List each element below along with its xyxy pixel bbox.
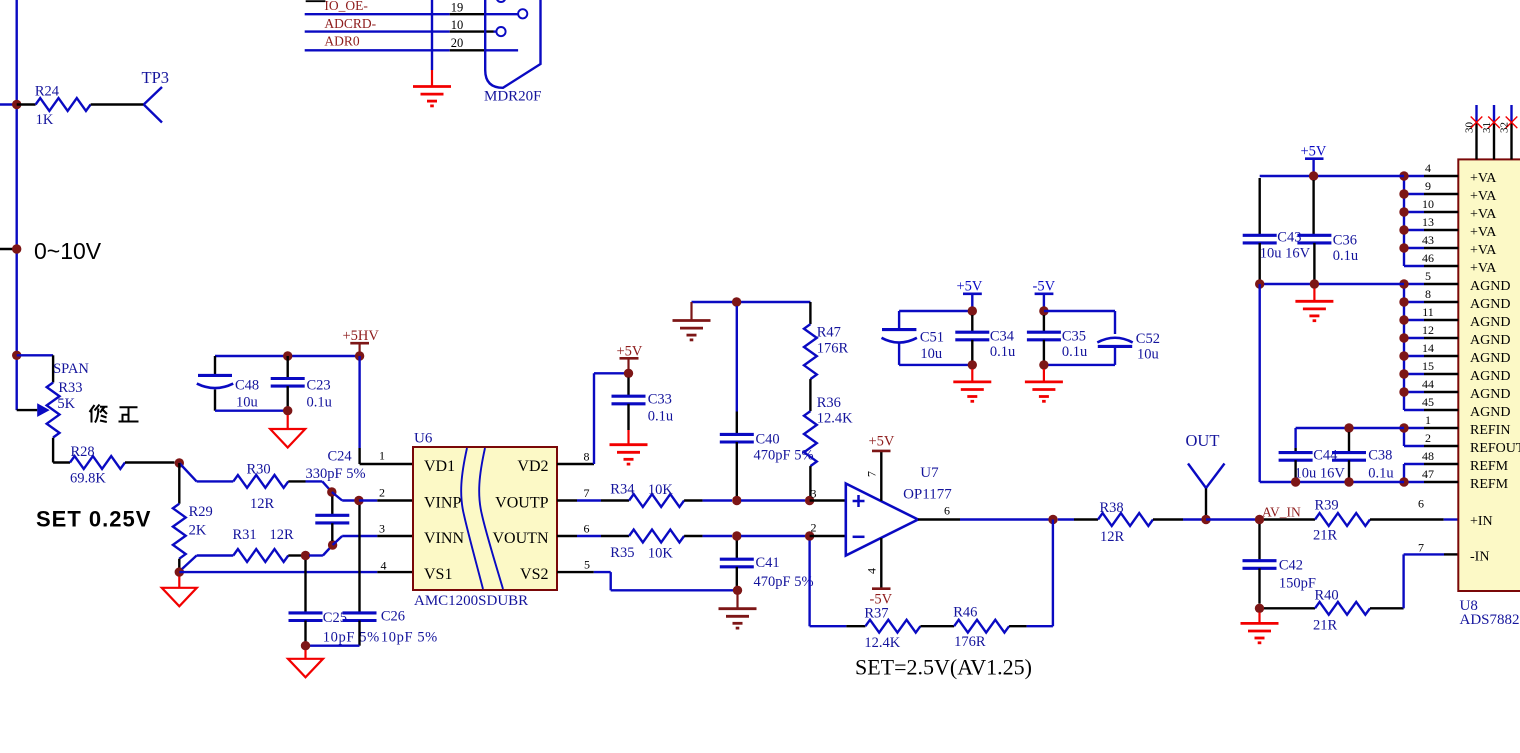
svg-text:30: 30 xyxy=(1464,122,1476,134)
ground connector (red earth) xyxy=(431,70,433,87)
svg-text:VD1: VD1 xyxy=(424,458,455,475)
svg-text:C36: C36 xyxy=(1333,233,1357,249)
svg-text:1: 1 xyxy=(1425,413,1431,427)
wire pot top lead xyxy=(17,355,53,382)
capacitor C36 0.1u xyxy=(1297,180,1358,280)
svg-text:0.1u: 0.1u xyxy=(1333,248,1358,264)
svg-text:+VA: +VA xyxy=(1470,243,1497,258)
svg-text:AGND: AGND xyxy=(1470,405,1510,420)
svg-text:-5V: -5V xyxy=(1033,279,1056,295)
svg-text:R34: R34 xyxy=(610,481,635,497)
ground C36 (red earth) xyxy=(1313,289,1315,302)
U8 top pin NC 31 xyxy=(1481,105,1500,159)
svg-text:47: 47 xyxy=(1422,467,1434,481)
svg-text:R47: R47 xyxy=(817,325,841,341)
node C24 top junction xyxy=(327,487,336,496)
resistor R31 12R xyxy=(233,527,302,562)
U8 pin 2 REFOUT xyxy=(1404,431,1520,456)
capacitor C42 150pF xyxy=(1243,524,1316,604)
node AGND junction xyxy=(1399,297,1408,306)
wire +5HV rail xyxy=(215,355,360,357)
svg-text:C38: C38 xyxy=(1368,448,1392,464)
resistor R47 176R xyxy=(804,302,848,379)
svg-text:31: 31 xyxy=(1481,122,1493,133)
wire -5V rail xyxy=(1044,310,1115,312)
node AV_IN junction xyxy=(1255,515,1264,524)
resistor R38 12R xyxy=(1058,500,1202,545)
node +VA junction xyxy=(1399,171,1408,180)
svg-text:0.1u: 0.1u xyxy=(1062,344,1087,360)
svg-text:4: 4 xyxy=(1425,161,1431,175)
svg-text:12R: 12R xyxy=(1100,529,1125,545)
node AGND-left junction xyxy=(175,567,184,576)
svg-text:2: 2 xyxy=(1425,431,1431,445)
test point TP3 xyxy=(142,68,170,123)
wire top node rail xyxy=(692,301,811,303)
connector pin circle cropped xyxy=(496,0,505,2)
svg-text:C41: C41 xyxy=(756,555,780,571)
svg-text:1K: 1K xyxy=(36,112,54,128)
wire VS2 to ground node xyxy=(557,572,733,590)
wire feedback left xyxy=(810,541,866,627)
connector pin circle row19 xyxy=(518,9,527,18)
svg-text:AGND: AGND xyxy=(1470,279,1510,294)
node C40 top junction xyxy=(732,297,741,306)
svg-text:10: 10 xyxy=(1422,197,1434,211)
U8 pin 15 AGND xyxy=(1404,359,1510,384)
U8 pin 44 AGND xyxy=(1404,377,1510,402)
wire left bus vertical xyxy=(1258,284,1260,482)
resistor R37 12.4K xyxy=(864,605,954,651)
U8 pin 43 +VA xyxy=(1404,233,1497,258)
node +VA junction xyxy=(1399,243,1408,252)
svg-text:REFOUT: REFOUT xyxy=(1470,441,1520,456)
svg-text:10u 16V: 10u 16V xyxy=(1260,246,1311,262)
svg-text:R31: R31 xyxy=(233,527,257,543)
node C38 bottom junction xyxy=(1344,477,1353,486)
label xiuzheng (Chinese) xyxy=(90,405,139,423)
svg-text:10u 16V: 10u 16V xyxy=(1295,466,1346,482)
svg-text:1: 1 xyxy=(379,449,385,463)
svg-text:5K: 5K xyxy=(57,396,75,412)
svg-text:OP1177: OP1177 xyxy=(903,487,952,503)
U8 pin 8 AGND xyxy=(1404,287,1510,312)
svg-text:0.1u: 0.1u xyxy=(990,344,1015,360)
wire C26 bottom to C25 xyxy=(306,645,360,647)
svg-text:12: 12 xyxy=(1422,323,1434,337)
node -5V junction xyxy=(1039,306,1048,315)
svg-text:C42: C42 xyxy=(1279,558,1303,574)
svg-text:330pF 5%: 330pF 5% xyxy=(306,466,366,482)
svg-text:R37: R37 xyxy=(864,605,888,621)
svg-text:+5V: +5V xyxy=(957,279,983,295)
wire VOUTP lead xyxy=(557,499,629,501)
node AGND junction xyxy=(1399,369,1408,378)
ground C25 triangle xyxy=(304,650,306,659)
wire to VINP pin xyxy=(332,492,359,501)
svg-text:C51: C51 xyxy=(920,330,944,346)
wire minus-input net xyxy=(741,535,805,537)
svg-text:TP3: TP3 xyxy=(142,68,170,87)
svg-text:21R: 21R xyxy=(1313,617,1338,633)
svg-text:48: 48 xyxy=(1422,449,1434,463)
resistor R28 69.8K xyxy=(53,444,174,487)
svg-text:C26: C26 xyxy=(381,609,405,625)
wire REFIN chain xyxy=(1403,428,1405,446)
svg-text:AGND: AGND xyxy=(1470,297,1510,312)
svg-text:-IN: -IN xyxy=(1470,550,1489,565)
svg-text:19: 19 xyxy=(451,0,464,14)
svg-text:10pF 5%: 10pF 5% xyxy=(381,630,438,646)
svg-text:470pF 5%: 470pF 5% xyxy=(754,448,814,464)
svg-text:5: 5 xyxy=(584,558,590,572)
wire to VINN pin xyxy=(333,536,413,545)
wire C48 bottom rail xyxy=(215,410,288,412)
wire +5V rail xyxy=(899,310,972,312)
node +VA junction xyxy=(1399,207,1408,216)
svg-text:8: 8 xyxy=(584,450,590,464)
svg-text:AGND: AGND xyxy=(1470,315,1510,330)
wire R40 to -IN xyxy=(1404,554,1459,608)
node C38 top junction xyxy=(1344,423,1353,432)
capacitor C43 10u 16V xyxy=(1243,178,1311,280)
svg-text:R40: R40 xyxy=(1315,587,1339,603)
svg-text:REFIN: REFIN xyxy=(1470,423,1510,438)
svg-text:10K: 10K xyxy=(648,482,674,498)
U8 pin 1 REFIN xyxy=(1404,413,1510,438)
svg-text:SPAN: SPAN xyxy=(53,361,89,377)
test point OUT xyxy=(1186,431,1225,515)
svg-text:2: 2 xyxy=(811,521,817,535)
U8 pin 11 AGND xyxy=(1404,305,1510,330)
node feedback junction xyxy=(805,531,814,540)
power +5HV xyxy=(343,328,380,356)
svg-text:7: 7 xyxy=(584,486,590,500)
svg-text:10pF 5%: 10pF 5% xyxy=(323,630,380,646)
svg-text:0.1u: 0.1u xyxy=(1368,466,1393,482)
svg-text:6: 6 xyxy=(1418,496,1424,510)
node C24 bottom junction xyxy=(328,540,337,549)
wire cropped top row xyxy=(306,0,326,2)
svg-text:AMC1200SDUBR: AMC1200SDUBR xyxy=(414,593,528,609)
U8 pin 12 AGND xyxy=(1404,323,1510,348)
svg-text:150pF: 150pF xyxy=(1279,576,1316,592)
svg-text:SET 0.25V: SET 0.25V xyxy=(36,507,151,532)
capacitor C41 470pF 5% xyxy=(720,541,814,590)
svg-text:SET=2.5V(AV1.25): SET=2.5V(AV1.25) xyxy=(855,655,1032,680)
ground C23 triangle xyxy=(287,415,289,429)
wire VD2 to +5V node xyxy=(557,373,629,464)
wire +5HV to VD1 xyxy=(360,356,413,464)
svg-text:+5V: +5V xyxy=(869,434,895,450)
svg-text:470pF 5%: 470pF 5% xyxy=(754,574,814,590)
svg-text:15: 15 xyxy=(1422,359,1434,373)
svg-text:VS1: VS1 xyxy=(424,566,452,583)
U8 pin 45 AGND xyxy=(1404,395,1510,420)
wire ADCRD- row xyxy=(305,30,497,32)
capacitor C23 0.1u xyxy=(271,356,332,411)
capacitor C35 0.1u xyxy=(1027,315,1087,361)
svg-text:+5HV: +5HV xyxy=(343,328,380,344)
node SPAN junction xyxy=(12,351,21,360)
potentiometer R33 SPAN 5K xyxy=(17,361,90,463)
svg-text:+VA: +VA xyxy=(1470,225,1497,240)
wire VINP stub xyxy=(359,499,413,501)
svg-text:45: 45 xyxy=(1422,395,1434,409)
svg-text:12.4K: 12.4K xyxy=(817,410,853,426)
capacitor C40 470pF 5% xyxy=(720,306,814,496)
node R36 bottom junction xyxy=(805,496,814,505)
wire REFIN rail xyxy=(1296,427,1404,429)
node AGND junction xyxy=(1399,387,1408,396)
adc U8 ADS7882 xyxy=(1458,159,1520,591)
svg-text:0.1u: 0.1u xyxy=(307,395,332,411)
node C41 top junction xyxy=(732,531,741,540)
svg-text:OUT: OUT xyxy=(1186,431,1220,450)
svg-text:+VA: +VA xyxy=(1470,261,1497,276)
svg-text:3: 3 xyxy=(379,522,385,536)
wire OUT to AV_IN xyxy=(1206,518,1255,520)
svg-text:MDR20F: MDR20F xyxy=(484,89,542,105)
ground +5V (red earth) xyxy=(971,369,973,382)
svg-text:12.4K: 12.4K xyxy=(864,635,900,651)
svg-text:12R: 12R xyxy=(270,527,295,543)
svg-text:6: 6 xyxy=(944,504,950,518)
svg-text:20: 20 xyxy=(451,36,464,50)
svg-text:10u: 10u xyxy=(236,395,258,411)
ground left triangle xyxy=(178,577,180,588)
svg-text:ADCRD-: ADCRD- xyxy=(324,16,376,31)
svg-text:REFM: REFM xyxy=(1470,477,1509,492)
wire +VA chain xyxy=(1403,176,1405,266)
svg-text:R39: R39 xyxy=(1315,497,1339,513)
svg-text:VD2: VD2 xyxy=(517,458,548,475)
node C36 bottom junction xyxy=(1310,279,1319,288)
svg-text:0~10V: 0~10V xyxy=(34,238,102,264)
svg-text:+VA: +VA xyxy=(1470,189,1497,204)
U8 pin 10 +VA xyxy=(1404,197,1497,222)
wire +VA rail xyxy=(1260,175,1404,177)
svg-text:AGND: AGND xyxy=(1470,369,1510,384)
svg-text:21R: 21R xyxy=(1313,527,1338,543)
resistor R40 21R xyxy=(1264,587,1404,633)
svg-text:VINP: VINP xyxy=(424,495,461,512)
svg-text:44: 44 xyxy=(1422,377,1434,391)
node +5HV junction xyxy=(355,351,364,360)
resistor R35 10K xyxy=(610,530,732,562)
svg-text:VINN: VINN xyxy=(424,530,464,547)
wire IO_OE- row xyxy=(305,13,518,15)
wire REFM rail xyxy=(1260,481,1404,483)
svg-text:R35: R35 xyxy=(610,545,634,561)
capacitor C48 10u xyxy=(197,356,259,411)
svg-text:69.8K: 69.8K xyxy=(70,471,106,487)
U8 pin 48 REFM xyxy=(1404,449,1509,474)
power -5V (cap bank) xyxy=(1033,279,1056,312)
node AGND junction xyxy=(1399,333,1408,342)
svg-text:14: 14 xyxy=(1422,341,1434,355)
wire R30 left lead xyxy=(179,463,233,481)
wire op-amp output xyxy=(918,518,1049,520)
U8 pin 4 +VA xyxy=(1404,161,1497,186)
capacitor C24 330pF 5% xyxy=(306,449,366,542)
svg-text:13: 13 xyxy=(1422,215,1434,229)
svg-text:2K: 2K xyxy=(189,523,207,539)
wire to op-amp plus input xyxy=(810,499,846,501)
svg-text:VOUTP: VOUTP xyxy=(495,495,548,512)
wire stub mid xyxy=(0,248,17,250)
svg-text:C23: C23 xyxy=(307,378,331,394)
svg-text:C24: C24 xyxy=(328,449,353,465)
resistor R34 10K xyxy=(610,481,732,507)
svg-text:46: 46 xyxy=(1422,251,1434,265)
node output junction xyxy=(1048,515,1057,524)
svg-text:5: 5 xyxy=(1425,269,1431,283)
svg-text:AGND: AGND xyxy=(1470,387,1510,402)
connector J MDR20F body xyxy=(485,0,540,88)
resistor R36 12.4K xyxy=(804,379,853,496)
connector pin circle row10 xyxy=(496,27,505,36)
ground -5V (red earth) xyxy=(1043,369,1045,382)
svg-text:C34: C34 xyxy=(990,329,1015,345)
node C41 bottom junction xyxy=(733,586,742,595)
capacitor C34 0.1u xyxy=(955,315,1015,361)
svg-text:ADR0: ADR0 xyxy=(324,34,360,49)
svg-text:+5V: +5V xyxy=(1301,144,1327,160)
svg-text:U6: U6 xyxy=(414,431,433,447)
U6 pin names xyxy=(424,458,549,583)
svg-text:R36: R36 xyxy=(817,395,841,411)
U7 power pin 4 xyxy=(865,538,893,608)
svg-text:VOUTN: VOUTN xyxy=(493,530,549,547)
svg-text:AGND: AGND xyxy=(1470,351,1510,366)
node C40 bottom junction xyxy=(732,496,741,505)
capacitor C51 10u xyxy=(882,311,945,365)
svg-text:R33: R33 xyxy=(58,380,82,396)
wire stub to R24 node xyxy=(0,103,17,105)
node C25 top junction xyxy=(301,551,310,560)
svg-text:VS2: VS2 xyxy=(520,566,548,583)
power +5V (U8) xyxy=(1301,144,1327,177)
svg-text:R38: R38 xyxy=(1100,500,1124,516)
svg-text:C35: C35 xyxy=(1062,329,1086,345)
svg-text:2: 2 xyxy=(379,486,385,500)
node VINP junction xyxy=(354,496,363,505)
node AGND rail left junction xyxy=(1255,279,1264,288)
svg-text:176R: 176R xyxy=(817,341,849,357)
node OUT junction xyxy=(1201,515,1210,524)
svg-text:8: 8 xyxy=(1425,287,1431,301)
capacitor C25 10pF 5% xyxy=(289,560,380,646)
wire AGND chain xyxy=(1403,284,1405,410)
svg-text:+VA: +VA xyxy=(1470,207,1497,222)
ground C33 (red earth) xyxy=(627,430,629,445)
svg-text:7: 7 xyxy=(1418,540,1424,554)
resistor R30 12R xyxy=(233,462,322,513)
wire C52 bottom rail xyxy=(1044,364,1115,366)
resistor R46 176R xyxy=(953,605,1026,651)
svg-text:U7: U7 xyxy=(920,465,939,481)
wire to op-amp minus input xyxy=(810,535,846,537)
svg-text:11: 11 xyxy=(1422,305,1434,319)
U8 pin 47 REFM xyxy=(1404,467,1509,492)
U8 pin 46 +VA xyxy=(1404,251,1497,276)
svg-text:9: 9 xyxy=(1425,179,1431,193)
wire C51 bottom rail xyxy=(899,364,972,366)
wire VS1 net xyxy=(179,571,413,573)
svg-text:R28: R28 xyxy=(71,444,95,460)
wire main input vertical xyxy=(16,0,18,410)
node AGND junction xyxy=(1399,279,1408,288)
U8 top pin NC 30 xyxy=(1464,105,1483,159)
wire AGND rail upper xyxy=(1260,283,1404,285)
node REFIN junction xyxy=(1399,423,1408,432)
node R28 output junction xyxy=(175,458,184,467)
node AGND junction xyxy=(1399,351,1408,360)
svg-text:32: 32 xyxy=(1499,122,1511,133)
op-amp U7 OP1177 xyxy=(846,484,918,556)
node C23 top junction xyxy=(283,351,292,360)
svg-text:R46: R46 xyxy=(953,605,977,621)
svg-text:ADS7882: ADS7882 xyxy=(1460,612,1520,628)
svg-text:10u: 10u xyxy=(920,346,942,362)
svg-text:C40: C40 xyxy=(756,432,780,448)
svg-text:IO_OE-: IO_OE- xyxy=(324,0,368,13)
node REFM junction xyxy=(1399,477,1408,486)
wire connector ground drop xyxy=(431,0,433,70)
U8 top pin NC 32 xyxy=(1499,105,1518,159)
svg-text:176R: 176R xyxy=(954,634,986,650)
svg-text:4: 4 xyxy=(865,568,879,574)
wire plus-input net xyxy=(741,499,805,501)
wire feedback right xyxy=(1027,520,1053,627)
U8 pin 14 AGND xyxy=(1404,341,1510,366)
svg-text:43: 43 xyxy=(1422,233,1434,247)
wire VOUTN lead xyxy=(557,535,629,537)
node C25 bottom junction xyxy=(301,641,310,650)
capacitor C38 0.1u xyxy=(1332,432,1394,482)
U8 pin 13 +VA xyxy=(1404,215,1497,240)
svg-text:10: 10 xyxy=(451,18,464,32)
node C23 bottom junction xyxy=(283,406,292,415)
svg-text:AV_IN: AV_IN xyxy=(1262,505,1301,520)
node +5V junction xyxy=(968,306,977,315)
svg-text:C52: C52 xyxy=(1136,331,1160,347)
svg-text:C33: C33 xyxy=(648,392,672,408)
capacitor C52 10u xyxy=(1097,311,1160,365)
node R24 junction xyxy=(12,100,21,109)
svg-text:AGND: AGND xyxy=(1470,333,1510,348)
U7 power pin 7 xyxy=(865,434,895,502)
svg-text:+IN: +IN xyxy=(1470,514,1493,529)
node C42 bottom junction xyxy=(1255,604,1264,613)
ground C41 (maroon earth) xyxy=(736,595,738,609)
svg-text:7: 7 xyxy=(865,471,879,477)
node mid junction xyxy=(12,244,21,253)
resistor R29 2K xyxy=(173,463,213,572)
svg-text:REFM: REFM xyxy=(1470,459,1509,474)
svg-text:C48: C48 xyxy=(235,378,259,394)
wire ADR0 row xyxy=(305,49,518,51)
node +5V gnd junction xyxy=(968,360,977,369)
ground C42 (red earth) xyxy=(1258,613,1260,624)
capacitor C33 0.1u xyxy=(612,378,674,431)
U6 pin numbers xyxy=(379,449,590,573)
resistor R24 xyxy=(17,84,144,129)
svg-text:10K: 10K xyxy=(648,546,674,562)
svg-text:12R: 12R xyxy=(250,496,275,512)
svg-text:6: 6 xyxy=(584,522,590,536)
